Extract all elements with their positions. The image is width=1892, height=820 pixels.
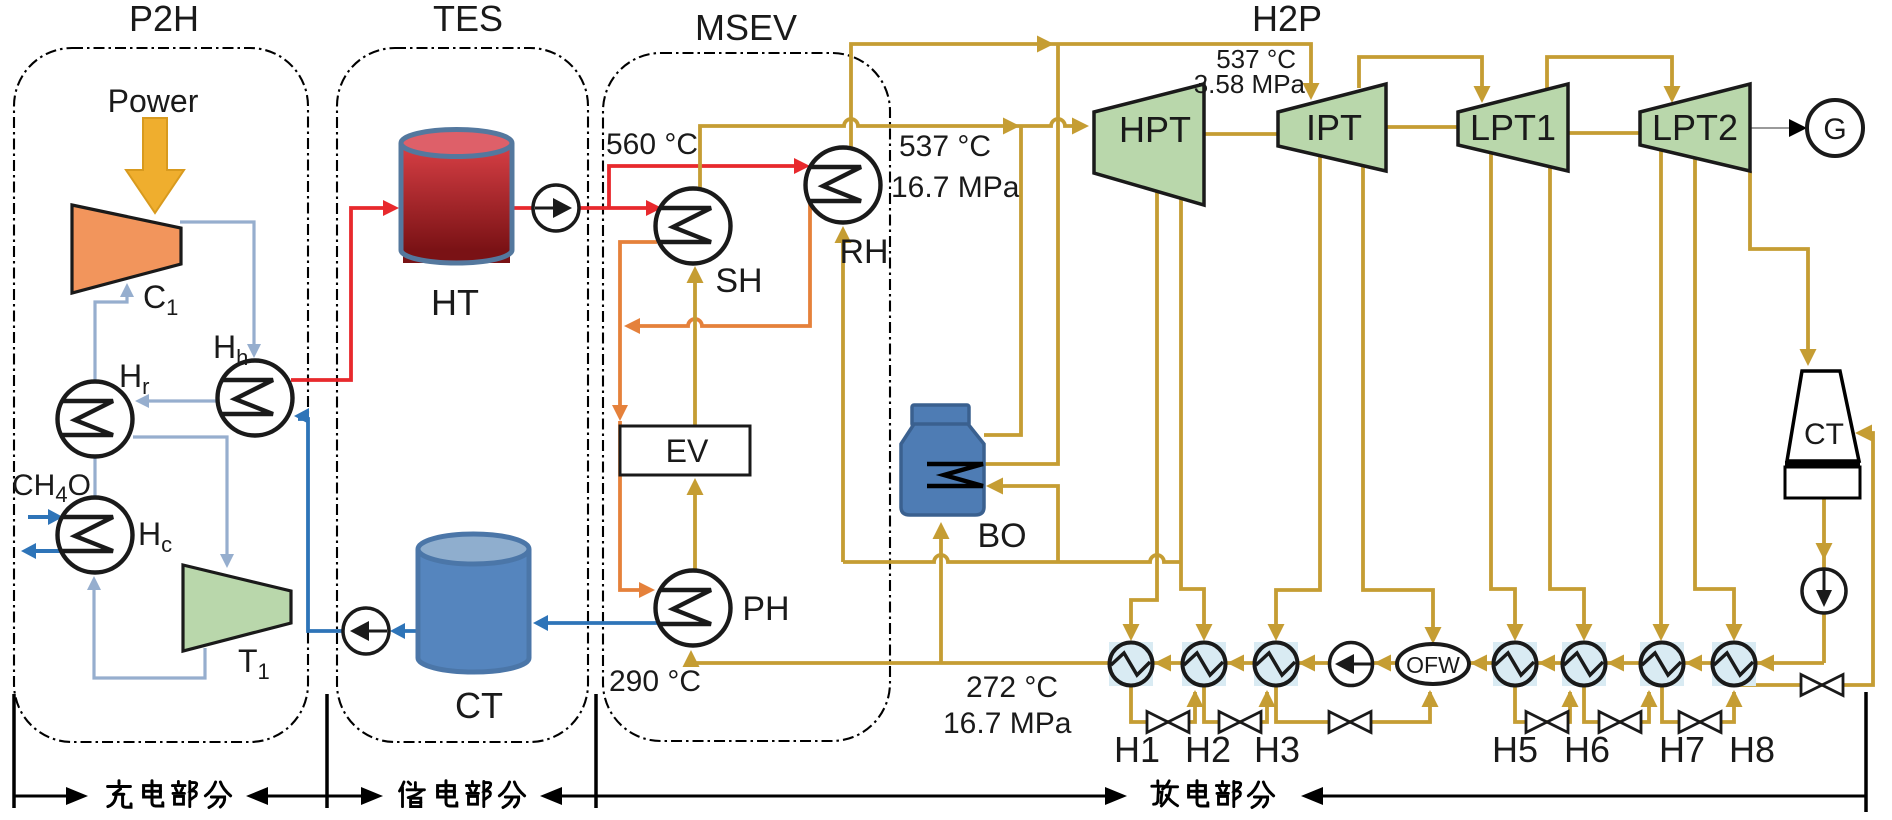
P2H section border [14, 48, 308, 742]
svg-text:H5: H5 [1492, 729, 1538, 770]
wire Hr to T1 inlet [133, 437, 227, 562]
IPT to LPT1 crossover [1359, 57, 1482, 97]
svg-text:16.7 MPa: 16.7 MPa [891, 171, 1020, 204]
LPT1 extraction to H6 [1550, 167, 1584, 637]
BO internal coil [927, 464, 983, 486]
CH4O outlet arrow [28, 549, 62, 553]
CH4O inlet arrow [28, 515, 56, 519]
drain H5 to H6 [1515, 686, 1570, 722]
svg-text:H6: H6 [1564, 729, 1610, 770]
heat exchanger Hc [58, 498, 133, 573]
feedwater pump [1330, 643, 1373, 686]
svg-text:3.58 MPa: 3.58 MPa [1194, 69, 1306, 99]
svg-text:LPT2: LPT2 [1652, 107, 1738, 148]
condensate pump [1802, 569, 1846, 613]
charging arrows [14, 795, 68, 798]
svg-text:16.7 MPa: 16.7 MPa [943, 707, 1072, 740]
heater H7 [1640, 642, 1684, 686]
HPT extraction to H1 [1131, 192, 1157, 637]
wire cold reheat riser into RH bottom (gold) [841, 230, 845, 562]
svg-text:SH: SH [715, 262, 762, 300]
charging section label (Chinese) [108, 781, 131, 807]
valve H2-H3 [1219, 712, 1261, 733]
wire red branch to RH [609, 166, 803, 208]
valve H3-OFW [1329, 712, 1371, 733]
wire Hh to Hr [140, 399, 218, 402]
pump after HT [533, 185, 579, 231]
heater H8 [1712, 642, 1756, 686]
wire CT to pump to Hh (blue) [395, 629, 418, 633]
wire T1 outlet to Hc [94, 580, 205, 678]
preheater PH [656, 571, 731, 646]
wire steam SH top to HPT (gold, hops at 851 and 1058) [700, 119, 1082, 189]
BO bottom feed riser [939, 526, 943, 663]
drain H2 to H3 [1204, 686, 1267, 722]
BO coil top line [984, 44, 1058, 464]
IPT extraction to H3 [1276, 156, 1320, 637]
LPT2 to generator shaft [1750, 127, 1798, 129]
wire PH to CT (blue) [540, 621, 657, 625]
svg-text:HPT: HPT [1119, 109, 1191, 150]
svg-text:H1: H1 [1114, 729, 1160, 770]
svg-text:G: G [1823, 113, 1846, 146]
wire EV top riser to SH (gold) [693, 270, 697, 426]
condensate from CT pump into H8 [1822, 498, 1826, 663]
heater H3 [1254, 642, 1298, 686]
BO top steam outlet [984, 126, 1021, 435]
svg-text:CT: CT [1804, 418, 1844, 451]
LPT1 to LPT2 crossover [1547, 57, 1672, 97]
cold tank CT [418, 644, 529, 672]
svg-text:EV: EV [666, 433, 709, 469]
wire steam RH top to IPT (gold) [851, 44, 1311, 149]
svg-text:PH: PH [742, 590, 789, 628]
wire oil SH outlet (orange) [620, 242, 657, 316]
svg-text:H2: H2 [1185, 729, 1231, 770]
HPT exhaust downcomer [1181, 198, 1204, 637]
wire PH top riser to EV (gold) [693, 482, 697, 571]
svg-text:P2H: P2H [129, 0, 199, 39]
LPT2 exhaust to condenser [1750, 171, 1808, 360]
svg-text:H3: H3 [1254, 729, 1300, 770]
svg-text:537 °C: 537 °C [899, 130, 991, 163]
valve H6-H7 [1599, 712, 1641, 733]
generator G [1807, 100, 1863, 156]
valve H7-H8 [1679, 712, 1721, 733]
TES section border [337, 48, 588, 742]
wire Hr to Hc [93, 457, 96, 498]
drain H6 to H7 [1584, 686, 1649, 722]
svg-text:H7: H7 [1659, 729, 1705, 770]
reheater RH [806, 148, 881, 223]
main feedwater line 272C [691, 661, 1824, 665]
feedwater arrows [1154, 655, 1171, 672]
valve H8-condenser [1801, 675, 1843, 696]
cold reheat line HPT to RH (gold, hops at 941 and 1157) [843, 555, 1181, 562]
evaporator EV box [620, 426, 750, 475]
wire hot oil Hh to HT (red) [291, 208, 392, 380]
pump before CT [343, 608, 389, 654]
wire oil down to EV and PH (orange) [618, 316, 622, 414]
turbine LPT2 [1640, 84, 1750, 171]
deaerator OFW [1397, 644, 1469, 684]
svg-text:TES: TES [433, 0, 503, 39]
LPT1-LPT2 connector [1568, 131, 1640, 135]
heat exchanger Hr [58, 382, 133, 457]
valve H1-H2 [1147, 712, 1189, 733]
LPT2 extraction to H8 [1695, 158, 1734, 637]
svg-text:560 °C: 560 °C [606, 128, 698, 161]
boiler BO tank [912, 405, 969, 426]
svg-text:IPT: IPT [1306, 107, 1362, 148]
IPT extraction to OFW [1363, 166, 1433, 640]
wire feedwater riser into PH bottom (gold) [689, 656, 693, 663]
wire C1 outlet to Hh [180, 222, 254, 352]
drain H7 to H8 [1662, 686, 1734, 722]
discharging section label (Chinese) [1152, 781, 1178, 806]
IPT-LPT1 connector [1386, 125, 1458, 129]
turbine IPT [1278, 84, 1386, 171]
svg-text:RH: RH [839, 233, 888, 271]
condenser CT [1787, 371, 1859, 461]
valve H5-H6 [1526, 712, 1568, 733]
turbine T1 [183, 565, 291, 651]
svg-text:H2P: H2P [1252, 0, 1322, 39]
wire HT to pump to MSEV (red) [512, 206, 534, 210]
svg-text:BO: BO [977, 517, 1026, 555]
svg-text:272 °C: 272 °C [966, 671, 1058, 704]
LPT2 extraction to H7 [1659, 150, 1663, 637]
compressor C1 [72, 205, 181, 293]
svg-text:Power: Power [108, 83, 199, 119]
superheater SH [656, 189, 731, 264]
drain H3 to OFW [1276, 686, 1430, 722]
power input arrow [126, 118, 184, 213]
svg-text:LPT1: LPT1 [1470, 107, 1556, 148]
svg-text:HT: HT [431, 282, 479, 323]
BO coil bottom line [992, 486, 1058, 562]
heater H1 [1109, 642, 1153, 686]
storage section label (Chinese) [400, 782, 425, 807]
svg-text:MSEV: MSEV [695, 7, 797, 48]
heater H6 [1562, 642, 1606, 686]
heat exchanger Hh [218, 361, 293, 436]
wire Hr to C1 inlet [95, 294, 127, 381]
storage arrows [327, 795, 362, 798]
svg-text:CT: CT [455, 685, 503, 726]
drain H1 to H2 [1131, 686, 1195, 722]
svg-text:OFW: OFW [1406, 652, 1460, 678]
svg-text:H8: H8 [1729, 729, 1775, 770]
HPT-IPT connector [1204, 132, 1278, 136]
MSEV section border [603, 53, 890, 741]
turbine LPT1 [1458, 84, 1568, 171]
H8 drain to condenser riser [1734, 433, 1873, 685]
discharging arrows [596, 795, 1106, 798]
turbine HPT [1094, 84, 1204, 205]
heater H5 [1493, 642, 1537, 686]
heater H2 [1182, 642, 1226, 686]
bracket bars [12, 694, 16, 808]
LPT1 extraction to H5 [1491, 153, 1515, 637]
svg-text:290 °C: 290 °C [609, 665, 701, 698]
wire oil RH outlet (orange, hop at 695) [632, 201, 810, 326]
